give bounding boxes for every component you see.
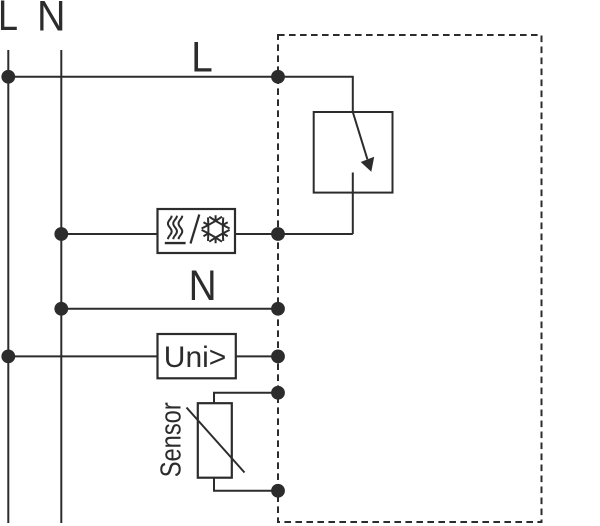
- heating symbol wavy line 1: [168, 216, 172, 240]
- junction Uni wire on L vertical: [1, 350, 15, 364]
- device box Uni: [158, 334, 236, 378]
- relay contact fixed stub: [352, 173, 354, 235]
- junction sensor top at device terminal: [271, 386, 285, 400]
- dashed enclosure (device outline): [278, 35, 542, 522]
- cooling symbol snowflake hexagon: [208, 221, 222, 238]
- wire N vertical (mains N): [60, 50, 62, 523]
- junction L-feed on L vertical: [1, 70, 15, 84]
- wire switched output (heating/cooling load) left segment: [61, 233, 157, 235]
- wire sensor top: [214, 393, 278, 403]
- wire L feed horizontal: [8, 76, 278, 78]
- heating symbol wavy line 3: [179, 216, 183, 240]
- wire Uni input right segment: [236, 355, 278, 357]
- load box heating/cooling: [158, 209, 236, 253]
- svg-text:Uni>: Uni>: [164, 341, 227, 374]
- wire N horizontal: [61, 308, 278, 310]
- sensor diagonal strike: [187, 408, 245, 473]
- junction N wire at device terminal: [271, 302, 285, 316]
- separator slash: [191, 215, 200, 244]
- junction L-feed at device terminal: [271, 70, 285, 84]
- wire from relay contact to switched-output terminal: [278, 233, 353, 235]
- relay contact arrowhead: [361, 157, 375, 172]
- svg-text:Sensor: Sensor: [156, 402, 188, 477]
- relay contact blade: [353, 112, 368, 159]
- cooling symbol snowflake arms: [202, 215, 230, 243]
- junction switched output at device terminal: [271, 227, 285, 241]
- svg-text:N: N: [189, 262, 217, 310]
- junction Uni wire at device terminal: [271, 350, 285, 364]
- wire sensor bottom: [214, 478, 278, 491]
- heating symbol underline: [165, 242, 186, 244]
- svg-text:L: L: [0, 0, 18, 40]
- junction switched output on N vertical: [54, 227, 68, 241]
- svg-text:N: N: [37, 0, 66, 40]
- junction N wire on N vertical: [54, 302, 68, 316]
- junction sensor bottom at device terminal: [271, 484, 285, 498]
- wire from L terminal to relay contact: [278, 77, 353, 112]
- relay contact box (switch): [314, 112, 393, 193]
- heating symbol wavy line 2: [173, 216, 177, 240]
- wire Uni input left segment: [8, 355, 157, 357]
- sensor body (thermistor rectangle): [198, 403, 232, 478]
- wire switched output right segment: [235, 233, 278, 235]
- svg-text:L: L: [191, 34, 213, 82]
- wire L vertical (mains L): [7, 50, 9, 523]
